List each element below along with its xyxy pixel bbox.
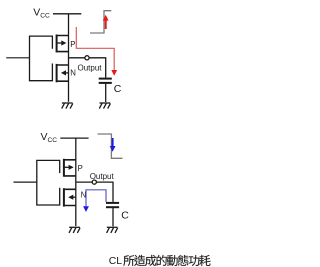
red arrowhead into capacitor	[111, 70, 117, 76]
input falling-step waveform	[98, 134, 123, 158]
svg-text:Output: Output	[90, 172, 115, 181]
svg-text:C: C	[121, 210, 129, 222]
svg-text:Output: Output	[78, 63, 103, 72]
blue falling-edge arrow	[110, 138, 116, 152]
svg-text:N: N	[70, 69, 76, 78]
inverter U2	[14, 131, 120, 233]
inverter U1	[6, 7, 112, 109]
blue arrowhead toward ground	[83, 206, 89, 212]
input rising-step waveform	[90, 11, 111, 33]
red charging current path	[76, 27, 114, 71]
svg-text:N: N	[81, 191, 87, 200]
svg-text:CL: CL	[109, 256, 123, 267]
blue discharging current path	[86, 190, 106, 208]
caption: 所造成的動態功耗 (vector glyphs)	[123, 255, 210, 266]
red rising-edge arrow	[103, 15, 109, 29]
svg-text:C: C	[114, 83, 122, 95]
